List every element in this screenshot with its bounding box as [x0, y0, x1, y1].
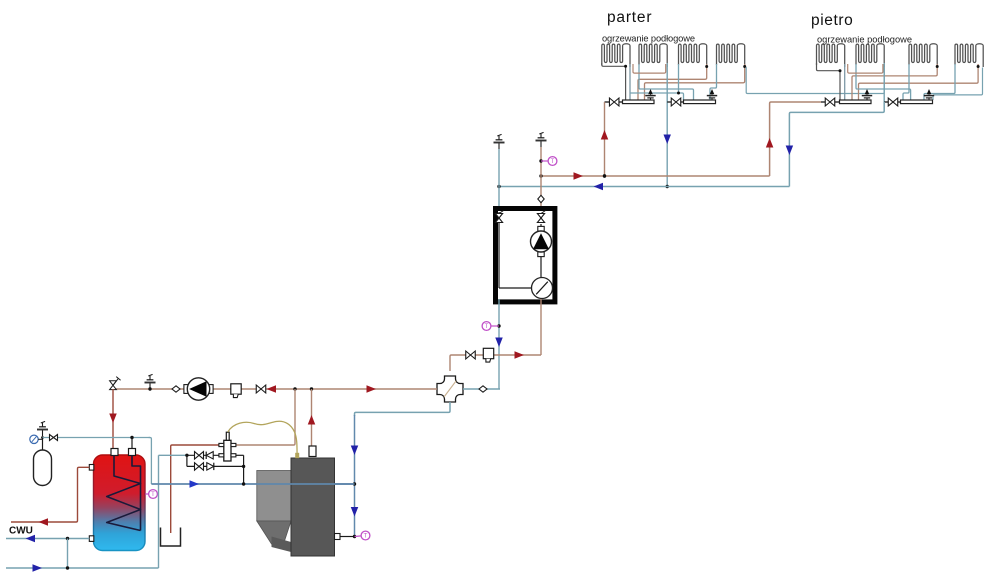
svg-text:parter: parter: [607, 9, 652, 26]
svg-text:CWU: CWU: [9, 526, 33, 537]
svg-text:ogrzewanie podłogowe: ogrzewanie podłogowe: [817, 35, 912, 45]
svg-text:T: T: [551, 159, 555, 165]
svg-text:T: T: [151, 492, 155, 498]
svg-text:T: T: [485, 324, 489, 330]
svg-text:pietro: pietro: [811, 12, 853, 29]
svg-text:T: T: [364, 534, 368, 540]
svg-text:ogrzewanie podłogowe: ogrzewanie podłogowe: [602, 33, 695, 43]
